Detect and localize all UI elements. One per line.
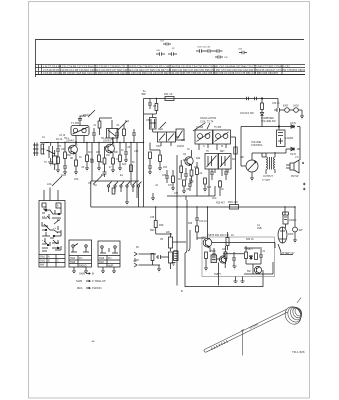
resistor R13: [180, 166, 183, 173]
T3 internals: [198, 134, 203, 139]
wire antenna to tuning: [45, 142, 50, 144]
wire bus middle: [91, 206, 295, 208]
band switch S1 box: [39, 201, 65, 268]
svg-text:R41: R41: [232, 159, 237, 161]
wire x92 vertical: [91, 143, 93, 182]
svg-text:R40: R40: [196, 158, 201, 160]
svg-text:5MF: 5MF: [150, 230, 155, 232]
svg-text:PU: PU: [136, 247, 140, 249]
dense cluster small caps row: [165, 170, 169, 183]
svg-text:R1 2K: R1 2K: [56, 139, 63, 141]
wire x131 vertical: [130, 143, 132, 186]
capacitor C22 under T5: [210, 169, 214, 180]
small coil box between T2 T3: [176, 129, 184, 140]
resistor R12: [155, 104, 158, 111]
svg-text:2SB77: 2SB77: [246, 249, 254, 251]
label battery: [280, 254, 293, 256]
grounds under S2 S3: [72, 271, 116, 273]
resistor R26: [255, 253, 258, 260]
svg-text:10%: 10%: [74, 179, 79, 181]
resistor R24: [224, 252, 227, 259]
wire R16: [172, 170, 174, 188]
svg-text:TC: TC: [44, 162, 47, 164]
S1 bottom label rows: [39, 255, 65, 267]
wire L3 top: [144, 114, 157, 118]
earphone jack J2 circle: [294, 108, 299, 113]
wire detector line: [241, 126, 290, 128]
battery BT1: [278, 227, 287, 243]
node dot bus-Q1: [75, 142, 76, 143]
svg-text:BATTERY 9V: BATTERY 9V: [280, 252, 295, 255]
resistor R19: [159, 155, 162, 162]
wire input cluster to Q4: [163, 242, 186, 257]
svg-text:2K: 2K: [221, 189, 224, 191]
ground below C2: [63, 172, 67, 175]
transistor Q5: [219, 256, 226, 263]
svg-text:T1 455: T1 455: [71, 121, 80, 125]
wire T5 T6 leads: [209, 169, 228, 176]
IF can T5: [205, 154, 218, 170]
top band row line 3: [35, 71, 305, 73]
wire R6: [98, 143, 100, 169]
transistor Q4 driver: [203, 238, 212, 247]
Q6 internals: [256, 267, 260, 274]
svg-text:R33 1K: R33 1K: [246, 239, 254, 241]
ground below C6: [124, 160, 128, 163]
tone contact 5: [137, 185, 139, 187]
tone contact 2: [120, 185, 122, 187]
top band row text 1: [43, 64, 314, 75]
band cap labels: [156, 41, 243, 60]
ground below J2: [300, 116, 304, 119]
diode D4: [260, 110, 263, 127]
resistor R18: [149, 152, 152, 159]
Q1 internals: [71, 145, 76, 154]
resistor R14: [190, 170, 193, 176]
T1 internals: [73, 128, 77, 132]
wire R32: [219, 180, 221, 196]
IF transformer T1 can: [71, 126, 89, 136]
wire T2 leads: [153, 129, 179, 146]
output stage enclosure box: [202, 237, 275, 277]
input jack P2: [134, 263, 143, 267]
S2 label rows: [69, 256, 92, 268]
tone resistor R29: [112, 188, 115, 194]
resistor R8 vertical above: [98, 121, 101, 128]
svg-text:JACK: JACK: [293, 105, 300, 108]
svg-text:R28: R28: [159, 224, 164, 227]
node dot top wire: [261, 98, 262, 99]
T2 internals arrows: [159, 134, 174, 141]
ground C10: [148, 172, 152, 175]
dimension line vertical: [241, 330, 244, 356]
svg-text:2SB77: 2SB77: [214, 274, 222, 276]
capacitor C23 under T6: [224, 169, 228, 180]
svg-text:006P: 006P: [288, 234, 294, 236]
top band row line 2: [35, 67, 305, 69]
T4 internals: [216, 134, 221, 139]
mid value labels: [146, 120, 237, 200]
svg-text:C10: C10: [134, 151, 139, 153]
resistor R10: [130, 165, 133, 172]
svg-text:TR-1: TR-1: [64, 138, 70, 140]
wire battery top: [283, 212, 289, 228]
osc label pointer lines: [193, 123, 210, 131]
wire R7: [104, 147, 106, 172]
small box aux: [53, 156, 58, 164]
svg-text:AVC: AVC: [212, 197, 217, 200]
svg-text:CONTROL: CONTROL: [251, 144, 263, 147]
wire R14 + ground: [190, 176, 194, 184]
wire R17 + ground: [182, 186, 186, 194]
capacitor C10: [148, 166, 152, 172]
svg-text:AMP: AMP: [108, 265, 114, 268]
Q3 internals: [187, 157, 192, 166]
wire T3 T4 leads down: [199, 144, 226, 150]
ground below VC1: [48, 158, 53, 165]
capacitor C25 on top wire: [247, 97, 249, 101]
svg-text:PHONO: PHONO: [92, 286, 102, 290]
svg-text:T4 455: T4 455: [196, 127, 204, 129]
wire diode D2 left lead: [262, 149, 290, 153]
pointer line c: [160, 122, 166, 128]
top band row line 4: [35, 74, 305, 76]
wire R9: [119, 143, 121, 169]
svg-text:RED: RED: [158, 129, 163, 131]
wire R27: [143, 254, 161, 266]
wire across under cluster: [167, 195, 215, 197]
potentiometer VR1: [246, 160, 258, 172]
svg-text:25MF: 25MF: [210, 251, 216, 253]
svg-text:R20 150: R20 150: [228, 200, 238, 204]
bottom value labels: [136, 203, 294, 294]
capacitor C24 hang: [132, 129, 136, 143]
variable capacitor VC1: [47, 146, 56, 158]
svg-text:2K2: 2K2: [96, 152, 101, 154]
wire Q1 collector up: [75, 138, 77, 145]
transformer T2 two-cell box: [158, 132, 176, 142]
wire R21: [196, 232, 198, 238]
volume sliders VR2: [169, 237, 173, 248]
wire Q5: [217, 254, 226, 286]
antenna coil winding: [282, 304, 304, 327]
svg-text:OSCILLATOR: OSCILLATOR: [200, 116, 216, 120]
top band outline: [36, 40, 305, 78]
wire bottom bus: [185, 253, 263, 287]
svg-text:EAR: EAR: [283, 105, 288, 108]
diode D3: [250, 255, 253, 260]
wire R25: [245, 246, 247, 264]
wire T1 leads: [76, 120, 84, 143]
tone contact 0: [107, 185, 109, 187]
T6 internals: [220, 156, 230, 168]
svg-text:R11 1K: R11 1K: [164, 92, 173, 96]
svg-text:1K: 1K: [79, 157, 82, 159]
wire x241 vertical: [240, 127, 242, 167]
svg-text:3 C6 R1 C8 C12 R5 C15: 3 C6 R1 C8 C12 R5 C15 R7 C18 R11 C21 C22…: [43, 71, 279, 75]
driver transformer T7 winding left: [267, 157, 268, 170]
capacitor in band C106: [214, 49, 223, 53]
svg-text:C: C: [57, 260, 59, 263]
resistor R32: [219, 181, 222, 187]
speaker SP1: [290, 160, 299, 173]
oscillator coil L3 box: [150, 118, 157, 130]
wire aux box: [54, 150, 56, 170]
tone contact 4: [132, 185, 134, 187]
svg-text:47K: 47K: [168, 185, 173, 187]
diagonal wire to tone: [93, 176, 102, 185]
svg-text:2-8AFR: 2-8AFR: [285, 137, 294, 140]
svg-text:-w-: -w-: [91, 339, 95, 343]
wire R23 down + ground: [204, 259, 208, 272]
ferrite rod body: [205, 310, 288, 353]
wire cluster horizontal: [223, 253, 244, 255]
wire cluster bottoms: [150, 143, 160, 156]
coil L2 above Q2: [107, 129, 119, 139]
wire Q4 emitter down: [209, 247, 211, 252]
wire top right drop: [277, 99, 279, 109]
resistor R22 vertical: [226, 238, 229, 246]
svg-text:100MF: 100MF: [289, 219, 297, 222]
capacitor C1: [56, 143, 60, 156]
tone contact 3: [126, 185, 128, 187]
top band left cell ticks: [39, 65, 42, 75]
svg-text:DET: DET: [220, 151, 225, 153]
capacitor in band C108: [239, 51, 247, 54]
S1 inner extra contacts: [42, 207, 61, 250]
wire S2 S3 stubs: [74, 267, 114, 271]
svg-text:B-: B-: [92, 272, 95, 276]
wire R5 bottom + ground: [111, 164, 115, 173]
resistor R33: [261, 103, 264, 110]
S1 inner extra segs: [42, 209, 61, 251]
wire R22 up: [227, 232, 229, 250]
wire vertical x177: [176, 155, 178, 286]
wire x156 vertical: [156, 207, 172, 234]
svg-text:R30 4K7: R30 4K7: [216, 203, 226, 205]
svg-text:SW4: SW4: [70, 257, 76, 260]
svg-text:SW2: SW2: [40, 260, 46, 263]
capacitor C7 drop from top wire: [148, 99, 152, 110]
wire R13: [180, 160, 182, 178]
resistor R16: [172, 176, 175, 183]
S2 box: [69, 240, 92, 267]
capacitor C5: [103, 172, 107, 177]
resistor R27: [151, 254, 154, 261]
cap C15: [232, 252, 236, 266]
diode D1: [290, 125, 296, 128]
wire R3 bottom: [75, 166, 77, 172]
wire R12: [155, 99, 157, 115]
wire x235.5 vertical: [231, 137, 236, 205]
svg-text:C36: C36: [150, 217, 155, 219]
svg-text:VOLUME SW: VOLUME SW: [261, 120, 276, 123]
svg-text:L0A: L0A: [47, 182, 52, 186]
ferrite antenna L1: [33, 143, 39, 157]
svg-text:OA70: OA70: [290, 122, 297, 125]
svg-text:OUTPUT: OUTPUT: [263, 175, 273, 178]
T7 winding right: [274, 157, 275, 170]
switch SW circle: [293, 227, 298, 232]
capacitor C2: [63, 166, 67, 172]
svg-text:SW8: SW8: [79, 272, 86, 276]
ground R19: [158, 168, 162, 171]
wire jacks: [283, 110, 302, 116]
wire VC1 top: [50, 143, 52, 147]
IF can T6: [219, 154, 232, 170]
Q2 internals: [108, 144, 113, 153]
transistor Q6: [254, 266, 261, 273]
wire Q1 base: [68, 147, 71, 149]
wire R8: [100, 118, 113, 135]
svg-text:V.C: V.C: [295, 157, 299, 159]
svg-text:5K: 5K: [132, 162, 135, 164]
wire R19: [159, 162, 161, 169]
wire mid verticals down: [186, 176, 215, 200]
diode D2: [290, 147, 296, 150]
wire Q1 emitter down: [75, 154, 77, 161]
ground below R1: [56, 170, 60, 173]
svg-text:2SB75 R31 220 C40: 2SB75 R31 220 C40: [207, 234, 230, 237]
svg-text:1K5: 1K5: [163, 167, 168, 169]
wire S1 stubs up: [44, 188, 58, 201]
svg-text:OA70: OA70: [290, 153, 297, 156]
ground below input: [157, 265, 161, 272]
capacitor in band C102: [156, 52, 165, 56]
resistor R4: [86, 155, 89, 162]
svg-text:R29: R29: [188, 223, 193, 225]
transistor Q3: [185, 157, 193, 165]
plus marks speaker: [302, 162, 305, 190]
resistor R15: [196, 168, 199, 175]
ground below R6: [97, 168, 101, 171]
IF can T3: [195, 130, 213, 144]
ground below R4: [85, 168, 89, 171]
svg-text:PU: PU: [79, 257, 83, 260]
wire R15: [196, 162, 198, 180]
capacitor C6: [124, 143, 128, 161]
svg-text:T5 455: T5 455: [214, 127, 222, 129]
wire right cluster: [244, 248, 273, 274]
svg-text:OSC: OSC: [156, 146, 161, 148]
ground drops under enclosure: [234, 277, 245, 283]
svg-text:9RA: 9RA: [77, 286, 83, 290]
wire R4: [86, 143, 88, 169]
capacitor in band C105: [205, 49, 214, 53]
svg-text:SW5: SW5: [70, 261, 76, 264]
wire R1 leads: [57, 155, 59, 170]
resistor R34 on x235: [234, 147, 237, 154]
S2 contacts: [72, 245, 74, 247]
svg-text:G: G: [203, 146, 205, 148]
transistor Q1: [69, 145, 78, 154]
capacitor C13: [195, 218, 199, 226]
capacitor C4: [90, 160, 94, 162]
band cell dividers: [60, 65, 282, 75]
svg-text:C13 10: C13 10: [199, 220, 207, 223]
transistor Q2: [106, 144, 115, 153]
resistor R23: [205, 252, 208, 259]
capacitor C26 on top wire: [255, 97, 257, 101]
Q5 internals: [221, 256, 225, 263]
wire drops from bus: [197, 207, 295, 238]
earphone jack J1 circle: [285, 108, 290, 113]
electrolytic C12: [277, 130, 286, 147]
wire Q2 emitter: [112, 153, 114, 159]
capacitor C16: [259, 249, 263, 264]
svg-text:SW7: SW7: [99, 261, 105, 264]
wire VR1 leads: [241, 153, 262, 178]
resistor R5: [112, 158, 115, 164]
T7 core lines: [270, 157, 272, 170]
svg-text:PU: PU: [108, 257, 112, 260]
main schematic wires and components: [33, 91, 295, 287]
wire Q2 base: [104, 146, 108, 148]
resistor R6: [98, 155, 101, 162]
coupling box on left vertical: [174, 251, 179, 261]
ground mid: [151, 193, 155, 201]
value labels left section: [42, 91, 147, 177]
tick top of center vertical: [142, 93, 146, 95]
node dot bus-Q2: [112, 142, 113, 143]
wire Q4 base: [197, 238, 206, 240]
ground tone: [125, 202, 129, 205]
capacitor C14: [212, 248, 216, 262]
node dot detector: [278, 126, 279, 127]
pointer line b: [88, 110, 95, 117]
svg-text:6K8: 6K8: [207, 187, 212, 189]
wire drop x262: [261, 99, 263, 104]
svg-text:K TAPE-UP: K TAPE-UP: [92, 279, 106, 283]
svg-text:2SB: 2SB: [257, 227, 262, 230]
right output cluster resistor R25: [245, 252, 248, 259]
resistor R7: [103, 158, 106, 164]
resistor R31: [204, 178, 207, 184]
electrolytic C19: [211, 255, 217, 263]
S1 inner top cells: [42, 203, 61, 248]
jack ground marks: [134, 258, 137, 261]
ground below SW: [293, 240, 297, 243]
resistor R9: [119, 155, 122, 162]
svg-text:3K3: 3K3: [178, 179, 183, 181]
svg-text:C33: C33: [162, 175, 167, 177]
capacitor C9: [188, 178, 192, 191]
resistor R2: [64, 152, 67, 159]
volume sliders VR3: [169, 252, 173, 263]
wire main bus left: [40, 142, 144, 144]
pointer line a: [118, 121, 127, 130]
capacitor C20 hang: [92, 128, 96, 143]
wire vertical center: [143, 99, 145, 208]
svg-text:VR: VR: [160, 239, 164, 241]
L3 internals: [150, 119, 157, 128]
svg-text:1K: 1K: [187, 149, 190, 151]
svg-text:4K7: 4K7: [88, 152, 93, 154]
svg-text:68K: 68K: [114, 152, 119, 154]
svg-text:C35: C35: [174, 193, 179, 195]
S3 contacts: [101, 246, 103, 248]
wire R24: [225, 246, 227, 264]
wire T7 leads: [266, 152, 275, 174]
capacitor in band C103: [168, 52, 177, 56]
svg-text:C30 30: C30 30: [272, 103, 280, 105]
svg-text:ON-OFF SW: ON-OFF SW: [240, 112, 254, 115]
svg-text:SW1: SW1: [40, 256, 46, 259]
resistor R17: [183, 180, 186, 186]
coil lead: [297, 298, 301, 304]
electrolytic C18: [283, 215, 288, 224]
wire L2 leads: [112, 120, 113, 140]
